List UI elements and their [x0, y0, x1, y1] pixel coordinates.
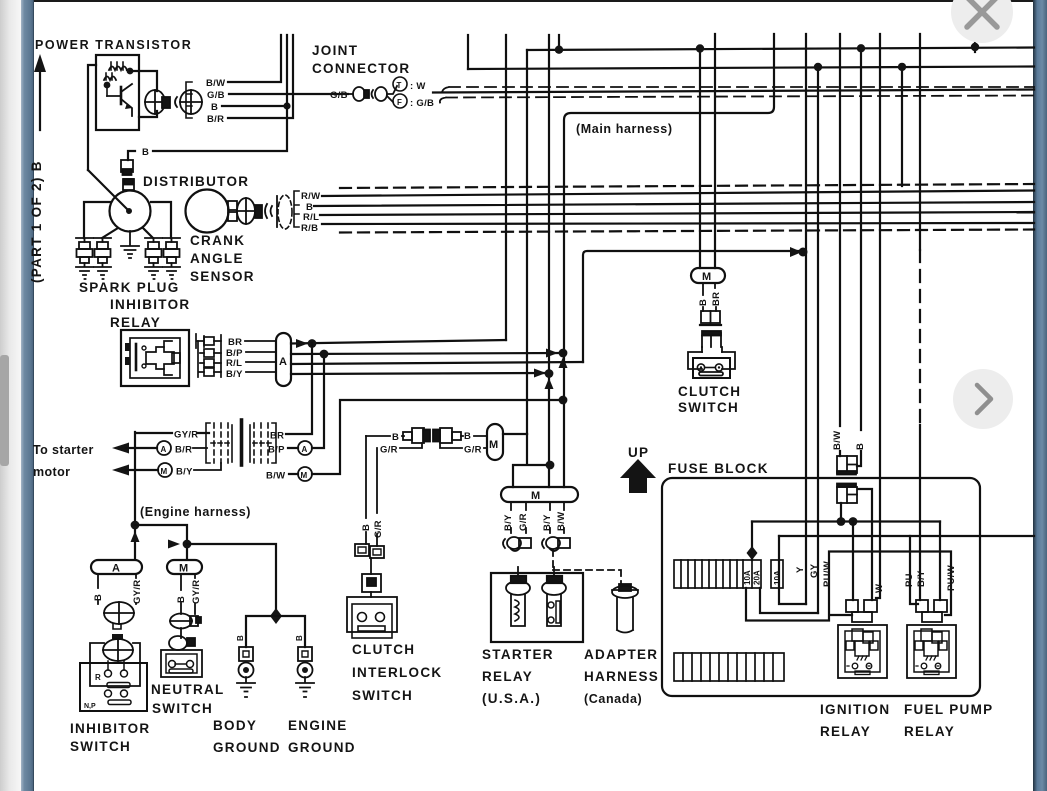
svg-text:B/Y: B/Y	[226, 369, 243, 380]
wire B/W up and over to v563	[289, 400, 563, 474]
vertical wire v559 stub with junction dot on bus1	[558, 35, 560, 51]
wire R/L bundle line	[320, 212, 1034, 215]
svg-text:SWITCH: SWITCH	[70, 739, 131, 754]
clutch switch body	[688, 347, 735, 378]
svg-text:SWITCH: SWITCH	[352, 688, 413, 703]
svg-text:NEUTRAL: NEUTRAL	[151, 682, 225, 697]
main harness bundle: dashed lower line	[340, 230, 1034, 233]
svg-text:UP: UP	[628, 445, 649, 460]
svg-text:R/W: R/W	[301, 191, 320, 202]
terminal circle A (right)	[298, 441, 312, 455]
relay coil squiggle	[515, 600, 519, 621]
transistor symbol inside Q1	[120, 87, 123, 104]
svg-text:W: W	[874, 584, 885, 593]
wire from capsule M right to v527	[503, 433, 527, 435]
svg-text:(PART 1 OF 2) B: (PART 1 OF 2) B	[29, 160, 44, 283]
fuse block enclosure	[662, 478, 980, 696]
svg-text:Y: Y	[795, 566, 806, 573]
svg-text:B/R: B/R	[175, 445, 192, 456]
crank sensor connector chain	[228, 196, 277, 227]
svg-text:BODY: BODY	[213, 718, 257, 733]
wire R/L line from capsule A to clutch corner wire	[291, 362, 583, 364]
svg-text:R/L: R/L	[303, 212, 319, 223]
spark plug 3	[145, 238, 162, 279]
joint connector bus: dashed G/B lower	[440, 96, 1034, 103]
wire from clutch area corner y251 to fuse block feed	[583, 251, 800, 362]
svg-text:POWER TRANSISTOR: POWER TRANSISTOR	[35, 38, 192, 52]
svg-text:B: B	[142, 147, 149, 158]
vertical wire v920 (B/Y feed, dashed mid-span)	[919, 34, 921, 250]
B/W B connector above fuse block	[832, 431, 866, 475]
svg-text:CLUTCH: CLUTCH	[678, 384, 741, 399]
clutch switch capsule M	[691, 268, 725, 283]
clutch interlock switch body	[347, 592, 397, 638]
svg-text:B/W: B/W	[206, 78, 225, 89]
svg-text:BR: BR	[711, 292, 722, 306]
svg-text:GY/R: GY/R	[174, 430, 198, 441]
svg-text:F: F	[397, 98, 402, 107]
svg-text:GROUND: GROUND	[213, 740, 281, 755]
relay plug inside fuse block	[837, 484, 857, 504]
vertical wire v563 from main-harness corner	[564, 34, 774, 487]
distributor B connector	[121, 160, 133, 175]
svg-text:B: B	[236, 635, 245, 641]
svg-text:B: B	[855, 443, 866, 450]
wire B/W to vertical	[228, 35, 281, 82]
scrollbar thumb	[0, 355, 9, 466]
svg-text:B/R: B/R	[207, 114, 224, 125]
inhibitor switch body	[80, 639, 147, 711]
svg-text:B: B	[176, 596, 187, 603]
main harness bundle: dashed upper line	[340, 184, 1034, 188]
svg-text:N,P: N,P	[84, 703, 96, 710]
spark plug 1	[76, 238, 93, 279]
svg-text:(U.S.A.): (U.S.A.)	[482, 691, 541, 706]
inhibitor relay box	[121, 330, 189, 386]
twin bulkhead connector right half	[250, 423, 276, 463]
wire GY/R to twin connector and down	[137, 432, 209, 434]
svg-text:G/R: G/R	[464, 445, 482, 456]
wire Q1 left lead down	[88, 65, 96, 170]
terminal circle A	[157, 441, 171, 455]
engine harness capsule A	[91, 560, 142, 575]
top bus line 2 (y68)	[468, 67, 1034, 70]
starter relay box	[491, 567, 583, 642]
svg-text:ADAPTER: ADAPTER	[584, 647, 658, 662]
wire from v527 down to capsule M and v549 junction	[513, 434, 550, 487]
top page edge line	[34, 0, 1033, 2]
wire R/B bundle line	[322, 223, 1034, 224]
svg-text:B: B	[93, 594, 104, 601]
starter relay connector 1	[503, 537, 531, 551]
connector capsule A	[276, 333, 291, 386]
svg-text:SWITCH: SWITCH	[152, 701, 213, 716]
spark plug 2	[94, 238, 111, 279]
svg-text:PU/W: PU/W	[822, 561, 833, 587]
svg-text:B: B	[295, 635, 304, 641]
vertical wire v701 clutch switch feed	[699, 49, 701, 269]
connector capsule M (vertical)	[487, 424, 503, 460]
ignition relay	[838, 625, 887, 678]
distributor cap terminal	[123, 179, 134, 190]
terminal circle M (right)	[298, 467, 312, 481]
wire from plug right side down to ignition relay pin	[858, 489, 872, 600]
svg-text:GY/R: GY/R	[132, 580, 143, 604]
distributor center ground	[121, 231, 139, 258]
svg-text:M: M	[489, 439, 498, 451]
close button X	[951, 0, 1013, 43]
wire B to vertical	[222, 105, 287, 107]
svg-text:(Engine harness): (Engine harness)	[140, 505, 251, 519]
svg-text:G/R: G/R	[518, 513, 529, 531]
left page-edge bar	[21, 0, 34, 791]
svg-text:INHIBITOR: INHIBITOR	[70, 721, 150, 736]
svg-text:GY/R: GY/R	[191, 580, 202, 604]
svg-text:To starter: To starter	[33, 443, 94, 457]
junction dot in Q1	[127, 68, 134, 75]
distributor body	[88, 170, 151, 232]
engine ground symbol	[295, 635, 314, 697]
svg-text:: G/B: : G/B	[410, 98, 434, 109]
svg-text:B/P: B/P	[268, 445, 285, 456]
fuel pump relay	[907, 625, 956, 678]
svg-text:B: B	[698, 299, 709, 306]
svg-text:M: M	[161, 467, 168, 476]
dashed link to starter relay and adapter harness	[553, 550, 621, 584]
fuse block output line to right edge	[779, 535, 1034, 537]
svg-text:20A: 20A	[753, 570, 762, 585]
svg-text:B/W: B/W	[556, 512, 567, 531]
harness entry dashed ellipse at crank sensor	[278, 195, 292, 229]
wire BR up to junction	[286, 343, 312, 434]
vertical wire v818 (GY feed)	[817, 67, 819, 613]
svg-text:SPARK PLUG: SPARK PLUG	[79, 280, 180, 295]
svg-text:JOINT: JOINT	[312, 43, 358, 58]
circled F terminal : G/B	[393, 94, 434, 109]
crank angle sensor body	[186, 190, 229, 233]
svg-text:BR: BR	[228, 337, 242, 348]
svg-text:R/B: R/B	[301, 223, 318, 234]
svg-text:M: M	[702, 271, 711, 283]
svg-text:A: A	[302, 445, 308, 454]
svg-text:RELAY: RELAY	[904, 724, 955, 739]
interlock connector pair 2	[433, 428, 461, 443]
svg-text:B/Y: B/Y	[503, 514, 514, 531]
wire B/P up to junction	[288, 353, 324, 448]
bracket for B/W G/B B B/R labels	[186, 82, 192, 118]
svg-text:A: A	[112, 563, 120, 575]
svg-text:10A: 10A	[773, 570, 782, 585]
svg-text:SENSOR: SENSOR	[190, 269, 255, 284]
svg-text:RELAY: RELAY	[482, 669, 533, 684]
svg-text:A: A	[279, 356, 287, 368]
wire BR from capsule A to v506 corner (goes up)	[291, 340, 506, 344]
svg-text:M: M	[531, 490, 540, 502]
svg-text:RELAY: RELAY	[820, 724, 871, 739]
fuse strip 1	[674, 560, 761, 588]
wire bus corner down to fuel relay pin	[939, 522, 941, 601]
fuse block internal bus y522	[752, 520, 940, 522]
svg-text:DISTRIBUTOR: DISTRIBUTOR	[143, 174, 249, 189]
svg-text:B/Y: B/Y	[176, 467, 193, 478]
svg-text:G/R: G/R	[380, 445, 398, 456]
top bus line 1 (y49)	[527, 48, 1034, 51]
engine harness capsule M	[167, 560, 202, 575]
neutral switch plug	[169, 628, 195, 650]
wire bus to 10A fuse with diamond junction	[751, 522, 753, 561]
svg-text:ENGINE: ENGINE	[288, 718, 348, 733]
svg-text:G/B: G/B	[330, 90, 348, 101]
vertical wire v880 (W feed to ignition relay)	[876, 34, 880, 598]
power transistor Q1 box	[96, 55, 139, 130]
fuse strip 2	[674, 653, 784, 681]
connector pair 2 (mating half)	[175, 90, 202, 114]
engine-main connector capsule M (horizontal)	[501, 487, 578, 502]
svg-text:(Main harness): (Main harness)	[576, 122, 673, 136]
arrow to starter (top)	[112, 443, 129, 454]
svg-text:IGNITION: IGNITION	[820, 702, 890, 717]
svg-text:B/W: B/W	[266, 471, 285, 482]
vertical wire v975 (stub on bus 1)	[974, 34, 976, 52]
vertical wire v468 (corner to bus2)	[467, 35, 469, 69]
svg-text:B/Y: B/Y	[542, 514, 553, 531]
wire B/Y line from capsule A to v549	[291, 373, 549, 374]
inhibitor switch bulb connector	[104, 602, 134, 629]
wire GY fuse return	[760, 588, 818, 613]
junction dot B wire	[283, 102, 290, 109]
bracket for R/W B R/L R/B labels	[294, 191, 299, 227]
vertical wire v806 (Y feed into fuse block)	[805, 34, 807, 604]
clutch switch plug	[702, 331, 721, 347]
relay plug 1	[517, 567, 519, 576]
svg-text:A: A	[161, 445, 167, 454]
wire to grounds	[187, 544, 276, 613]
twin bulkhead connector left half	[206, 423, 232, 463]
vertical wire v715 clutch switch feed	[714, 34, 716, 268]
svg-text:10A: 10A	[743, 570, 752, 585]
joint connector oval pair	[348, 86, 397, 102]
wire bus to ignition relay pin	[852, 522, 854, 601]
svg-text:B/W: B/W	[832, 431, 843, 450]
vertical wire v840 (B/W feed to connector)	[839, 34, 841, 456]
fuel pump relay connector	[916, 600, 947, 622]
body ground symbol	[236, 635, 255, 697]
vertical wire v902	[901, 67, 903, 186]
wire Q1 to connector loop	[130, 71, 157, 117]
wires from labels to connector A	[245, 341, 276, 372]
wire B/P line from capsule A to v563	[291, 353, 563, 354]
spark plug 4	[163, 238, 180, 279]
svg-text:B: B	[361, 524, 372, 531]
svg-text:B/Y: B/Y	[916, 570, 927, 587]
arrow to starter (bottom)	[112, 465, 129, 476]
svg-text:INHIBITOR: INHIBITOR	[110, 297, 190, 312]
coil windings inside Q1	[109, 67, 127, 71]
twin bulkhead connector mating bar	[240, 420, 244, 465]
next page chevron button	[953, 369, 1013, 429]
svg-text:FUEL PUMP: FUEL PUMP	[904, 702, 993, 717]
svg-text:B: B	[392, 432, 399, 443]
adapter harness plug	[612, 584, 638, 633]
svg-text:BR: BR	[270, 431, 284, 442]
svg-text:motor: motor	[33, 465, 70, 479]
svg-text:B: B	[464, 431, 471, 442]
vertical wire v527 (bus1 corner down to M connector)	[526, 50, 528, 434]
wire from junction to capsule M	[135, 525, 187, 559]
wire R/W bundle line	[322, 191, 1034, 197]
svg-text:ANGLE: ANGLE	[190, 251, 244, 266]
(PART 1 OF 2) B vertical sheet label with up arrow	[29, 54, 46, 283]
svg-text:FUSE BLOCK: FUSE BLOCK	[668, 461, 769, 476]
svg-text:M: M	[179, 563, 188, 575]
joint connector bus: solid W line	[433, 90, 1034, 93]
circled T terminal : W	[393, 77, 426, 92]
svg-text:CLUTCH: CLUTCH	[352, 642, 415, 657]
svg-text:PU/W: PU/W	[946, 565, 957, 591]
svg-text:(Canada): (Canada)	[584, 692, 642, 706]
ignition relay connector	[846, 600, 877, 622]
svg-text:STARTER: STARTER	[482, 647, 554, 662]
clutch switch connector	[700, 311, 721, 325]
svg-text:INTERLOCK: INTERLOCK	[352, 665, 442, 680]
svg-text:G/R: G/R	[373, 520, 384, 538]
svg-text:R/L: R/L	[226, 358, 242, 369]
fuse 10A (accessory) box	[771, 560, 783, 588]
right page-edge bar	[1033, 0, 1047, 791]
wire B from distributor connector up joint vertical	[128, 35, 287, 160]
vertical wire v506 (to inhibitor relay line)	[505, 35, 507, 340]
distributor plug wires	[84, 202, 171, 238]
relay plug 2	[553, 567, 555, 576]
inhibitor switch plug cap	[112, 634, 123, 640]
interlock connector pair 1	[403, 428, 430, 443]
clutch interlock connectors	[355, 544, 384, 558]
wire B bundle line	[314, 202, 1034, 206]
vertical wire v861 (B feed to connector)	[857, 48, 861, 466]
svg-text:: W: : W	[410, 81, 426, 92]
svg-text:HARNESS: HARNESS	[584, 669, 659, 684]
wire B row to connectors	[366, 435, 404, 437]
svg-text:B: B	[211, 102, 218, 113]
terminal circle M	[158, 463, 172, 477]
starter relay connector 2	[542, 537, 570, 551]
clutch interlock plug	[362, 558, 381, 592]
wire PU from output line down	[910, 536, 918, 604]
svg-text:GROUND: GROUND	[288, 740, 356, 755]
vertical wire v549	[548, 35, 550, 487]
wire B/R to vertical	[228, 35, 293, 118]
neutral switch bulb	[170, 614, 201, 629]
svg-text:G/B: G/B	[207, 90, 225, 101]
wire Y fuse return	[779, 536, 806, 604]
svg-text:CRANK: CRANK	[190, 233, 245, 248]
svg-text:CONNECTOR: CONNECTOR	[312, 61, 410, 76]
connector pair at Q1 output	[145, 90, 170, 114]
wire v135 from GY/R down to capsule A	[134, 432, 136, 559]
wire from plug to bus	[840, 503, 842, 521]
svg-text:T: T	[397, 81, 402, 90]
neutral switch body	[161, 650, 202, 677]
svg-text:GY: GY	[809, 563, 820, 578]
joint connector bus: dashed W upper	[442, 87, 1034, 92]
svg-text:R: R	[95, 673, 101, 682]
wire PU/W loop fuse to relays	[746, 552, 951, 621]
junction to ground run	[183, 540, 192, 549]
svg-text:RELAY: RELAY	[110, 315, 161, 330]
svg-text:SWITCH: SWITCH	[678, 400, 739, 415]
wire G/B long to joint connector	[229, 93, 348, 95]
inhibitor relay connector cluster	[196, 334, 221, 377]
svg-text:M: M	[301, 471, 308, 480]
rotor needle wire from Q1	[88, 170, 129, 211]
